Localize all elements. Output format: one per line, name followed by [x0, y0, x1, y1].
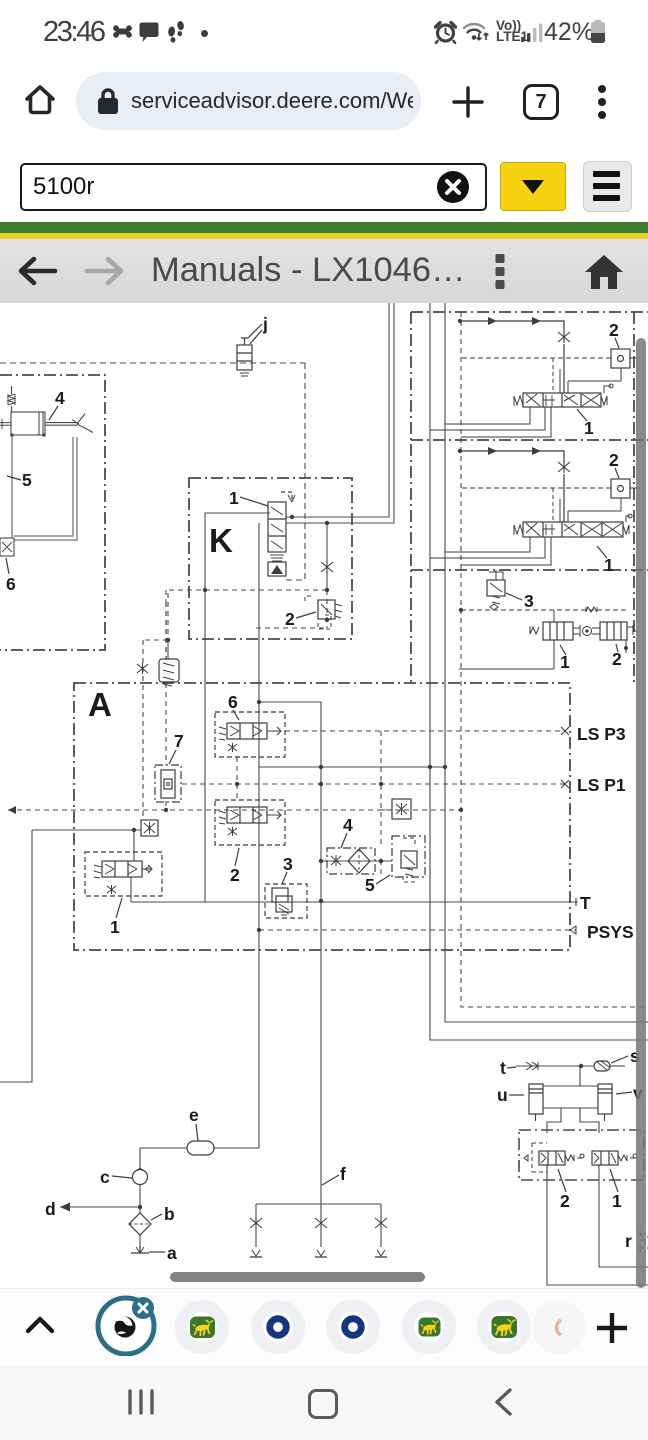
section2 risers: [560, 498, 621, 522]
wire s stub: [609, 1065, 625, 1067]
wire 702 corner to f riser: [259, 702, 321, 901]
line to comp 6 sensor: [11, 435, 13, 538]
r port symbols: [640, 1231, 648, 1240]
wifi icon with arrows: [462, 21, 490, 44]
section1 pilot line with arrows: [458, 317, 570, 393]
svg-text:1: 1: [110, 917, 120, 937]
box A enclosure: [74, 683, 570, 950]
restrictor X on K branch: [321, 561, 333, 573]
svg-text:d: d: [45, 1199, 56, 1219]
wire dashed vertical x381: [380, 731, 382, 874]
svg-text:1: 1: [584, 418, 594, 438]
yellow dropdown button: [500, 162, 566, 211]
wire load sense left arrow line: [8, 809, 461, 811]
battery icon: [590, 20, 606, 44]
small dot: [201, 30, 208, 37]
svg-text:1: 1: [229, 488, 239, 508]
section1 spool valve: [514, 384, 613, 407]
wire riser pair to K valve: [286, 303, 389, 517]
section3 proportional valve pair: [459, 610, 638, 669]
comp 4 filter: [327, 848, 375, 874]
svg-text:T: T: [580, 893, 591, 913]
svg-text:a: a: [167, 1243, 177, 1263]
chat bubble icon: [139, 22, 159, 43]
section2 return bends: [430, 537, 551, 565]
check valves on t line: [526, 1062, 538, 1070]
partial tab: [532, 1300, 586, 1354]
svg-text:1: 1: [612, 1191, 622, 1211]
comp 3 pilot valve A: [265, 884, 307, 918]
back arrow: [18, 254, 58, 288]
svg-text:LS P3: LS P3: [577, 724, 626, 744]
alarm clock icon: [434, 21, 457, 44]
svg-text:3: 3: [283, 854, 293, 874]
wire A left drain: [0, 830, 141, 1082]
steering valve right 1: [592, 1151, 637, 1165]
box right manifold right edge: [633, 312, 635, 683]
wire e accumulator link: [140, 1148, 187, 1169]
wire drain manifold bottom: [256, 1203, 381, 1205]
wire d branch: [60, 1206, 140, 1208]
section1 risers: [560, 368, 621, 393]
home filled icon: [583, 252, 625, 292]
svg-text:4: 4: [55, 388, 65, 408]
svg-text:b: b: [164, 1204, 175, 1224]
wire channel verticals right: [430, 303, 648, 1040]
svg-text:e: e: [189, 1105, 199, 1125]
valve j: [237, 324, 262, 376]
small metering box on drain: [141, 820, 158, 836]
relief valve above A: [159, 602, 179, 686]
valve K1 spool: [268, 492, 295, 576]
box right manifold enclosure: [411, 312, 648, 683]
svg-text:6: 6: [228, 692, 238, 712]
section3 dashed pilot rail: [461, 609, 628, 611]
restrictor X left of relief: [137, 663, 148, 674]
svg-text:6: 6: [6, 574, 16, 594]
svg-text:t: t: [500, 1058, 506, 1078]
wire K metering branch: [326, 523, 328, 590]
jd logo tab 1: [175, 1300, 229, 1354]
svg-text:2: 2: [609, 450, 619, 470]
section2 solenoid box 2: [462, 479, 640, 498]
wire f drop line: [320, 901, 322, 1204]
drain symbols f manifold: [250, 1217, 387, 1257]
svg-text:5: 5: [22, 470, 32, 490]
svg-text:2: 2: [609, 320, 619, 340]
wire t line: [516, 1065, 594, 1067]
svg-text:2: 2: [285, 609, 295, 629]
small x-box above comp5: [381, 799, 411, 819]
wire dashed x166 riser above A: [165, 590, 167, 602]
svg-text:LS P1: LS P1: [577, 775, 626, 795]
svg-text:2: 2: [612, 649, 622, 669]
wire steering valve outlets: [547, 1165, 648, 1285]
wire LS dashed from K to relief: [143, 590, 327, 818]
lock icon: [96, 87, 120, 115]
wire steering cylinders cross lines: [543, 1066, 598, 1108]
svg-text:5: 5: [365, 875, 375, 895]
wire T line: [131, 901, 578, 903]
svg-text:K: K: [209, 522, 233, 559]
wire PSYS dashed line: [259, 929, 576, 931]
svg-text:f: f: [340, 1164, 346, 1184]
3-dot menu: [596, 84, 608, 120]
svg-text:PSYS: PSYS: [587, 922, 634, 942]
svg-text:A: A: [88, 686, 112, 723]
svg-text:j: j: [262, 314, 268, 334]
vertical dots: [493, 253, 507, 291]
plus: [595, 1311, 629, 1345]
accumulator e: [187, 1141, 214, 1155]
svg-text:1: 1: [604, 555, 614, 575]
chevron up: [25, 1315, 55, 1335]
plus icon: [451, 85, 485, 119]
active tab: globe with X badge: [95, 1292, 159, 1356]
cylinder u: [529, 1084, 543, 1121]
forward arrow: [84, 254, 124, 288]
filter b: [129, 1213, 151, 1235]
wire dashed vertical from j line down to K pilot: [283, 363, 305, 580]
cylinder v: [598, 1084, 612, 1121]
VoLTE text: [496, 20, 528, 42]
section1 return bends: [430, 407, 551, 437]
wire LS P3 line: [285, 730, 565, 732]
svg-text:1: 1: [560, 652, 570, 672]
box K enclosure: [189, 478, 352, 639]
signal bars: [520, 23, 544, 43]
clear X button: [436, 170, 470, 204]
comp 6 sensor: [0, 538, 14, 556]
wire LS P1 line: [182, 783, 565, 785]
bone icon: [113, 25, 132, 38]
svg-text:3: 3: [524, 591, 534, 611]
section3 pilot reducing valve 3: [487, 570, 505, 604]
svg-text:7: 7: [174, 731, 184, 751]
section1 solenoid box 2: [462, 349, 640, 368]
svg-text:4: 4: [343, 815, 353, 835]
url pill: [76, 72, 421, 130]
svg-text:r: r: [625, 1231, 632, 1251]
wire solid mid line 767: [259, 766, 445, 768]
box steering valve enclosure: [519, 1130, 644, 1180]
svg-text:2: 2: [560, 1191, 570, 1211]
home outline icon: [19, 79, 61, 121]
tab counter: [523, 84, 559, 120]
comp 5 reducing valve: [392, 836, 425, 882]
cylinder assembly: [0, 386, 93, 437]
tank a: [131, 1245, 149, 1253]
box top-left cylinder enclosure: [0, 375, 105, 650]
comp 6 valve group: [215, 712, 285, 757]
orifice s: [594, 1061, 610, 1071]
valve K2 pressure relief: [305, 596, 342, 629]
wire dashed top horizontal to valve j: [0, 362, 305, 364]
section2 pilot line with arrows: [458, 447, 570, 522]
section2 spool valve: [514, 514, 632, 537]
pump c: [133, 1170, 148, 1185]
steering valve left 2: [524, 1143, 584, 1172]
hamburger button: [583, 161, 632, 212]
comp 7 compensator: [155, 765, 181, 802]
wire c to b to a chain: [139, 1184, 141, 1253]
comp 1 valve group: [85, 852, 162, 902]
svg-text:2: 2: [230, 865, 240, 885]
wire pump pressure line x259: [213, 523, 259, 1148]
svg-text:c: c: [100, 1167, 110, 1187]
svg-text:u: u: [497, 1085, 508, 1105]
comp 2 valve group: [215, 800, 285, 845]
wire comp4 line: [321, 860, 392, 862]
wire K left work line: [205, 513, 270, 902]
footprints icon: [167, 21, 185, 45]
